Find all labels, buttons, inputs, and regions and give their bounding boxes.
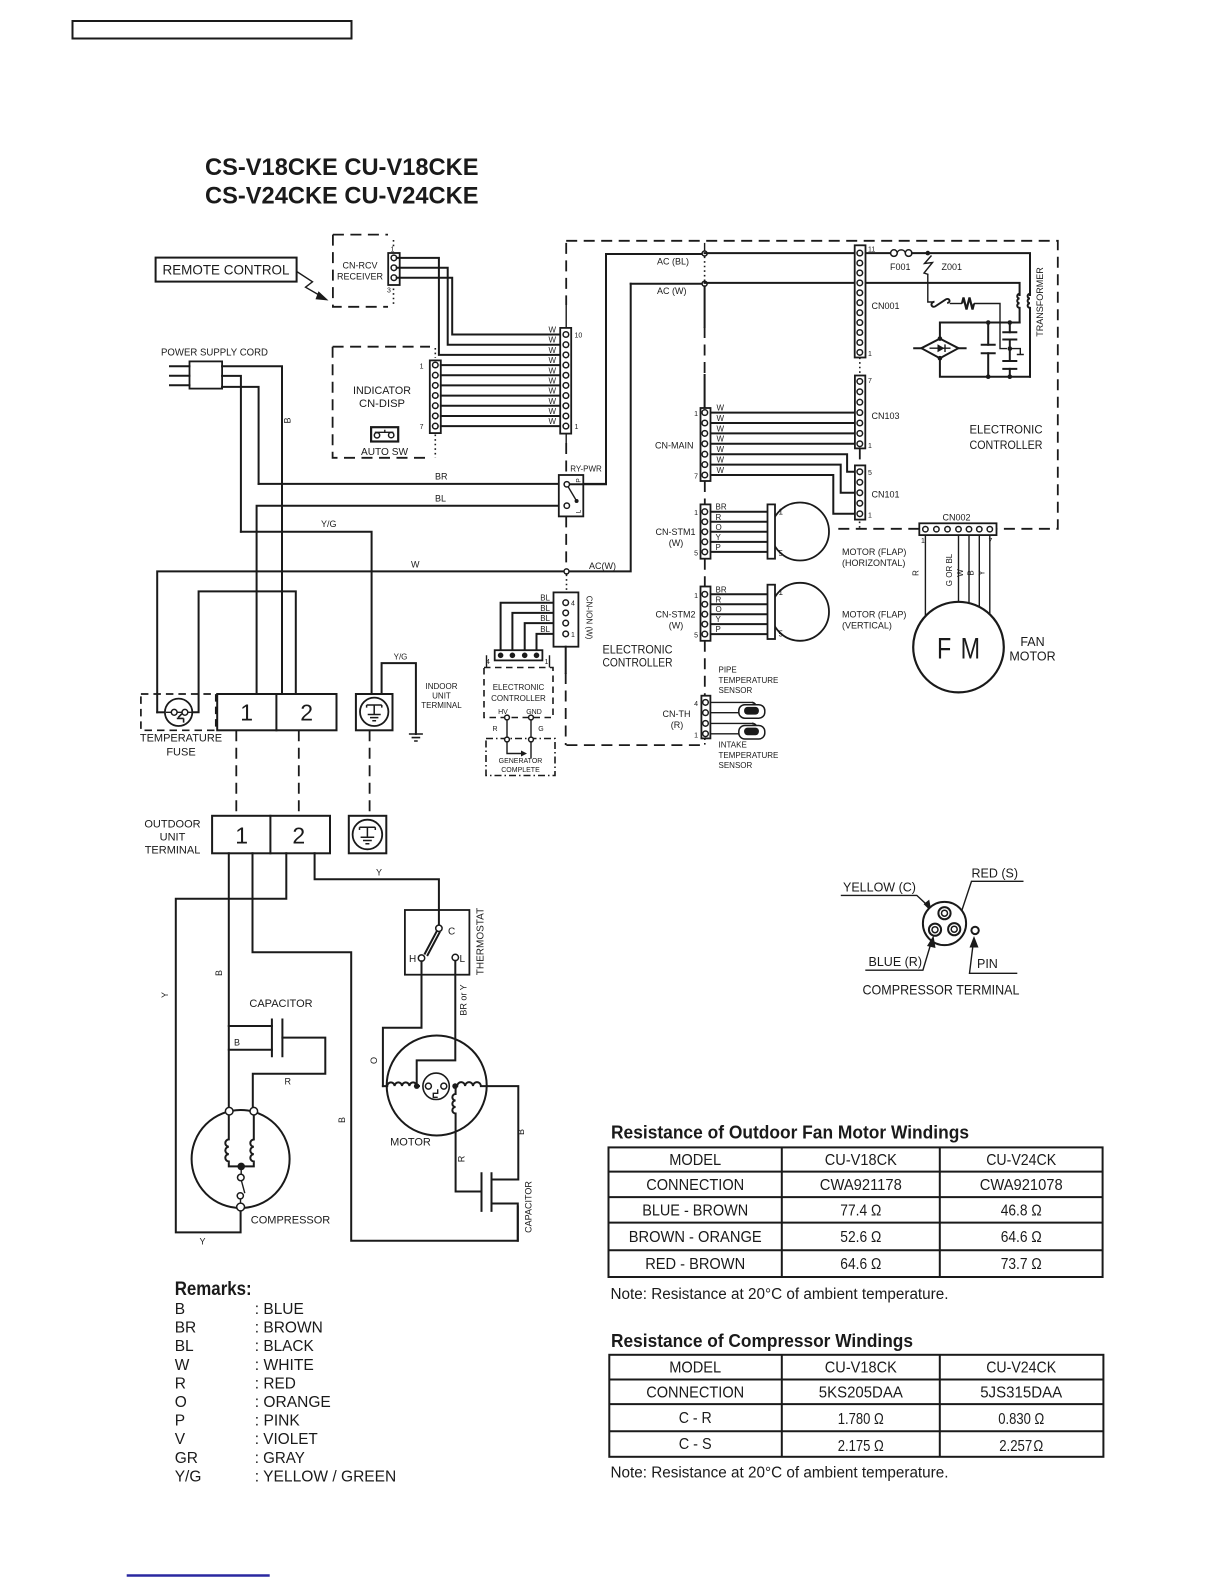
- varistor Z001: [924, 251, 962, 283]
- svg-text:2.257 Ω: 2.257 Ω: [999, 1438, 1043, 1455]
- svg-text:TERMINAL: TERMINAL: [421, 701, 462, 710]
- indoor dashed box bottom: [566, 744, 705, 746]
- connector CN-STM2: [656, 587, 711, 641]
- remote control signal arrow: [297, 272, 329, 301]
- connector CN002: [919, 513, 996, 546]
- svg-text:W: W: [717, 466, 725, 475]
- svg-text:INTAKE: INTAKE: [719, 741, 747, 750]
- svg-text:W: W: [717, 424, 725, 433]
- svg-text:W: W: [717, 414, 725, 423]
- svg-text:2: 2: [292, 823, 305, 849]
- motor capacitor: [456, 1114, 534, 1241]
- svg-text:11: 11: [868, 247, 875, 254]
- svg-text:BLUE (R): BLUE (R): [869, 955, 922, 969]
- svg-text:CN-ION (W): CN-ION (W): [585, 596, 594, 640]
- wire AC(W) from riser to node: [631, 283, 705, 285]
- capacitor (ceramic): [982, 323, 995, 377]
- svg-text:Note: Resistance at 20°C of am: Note: Resistance at 20°C of ambient temp…: [611, 1286, 949, 1303]
- wire terminal1 to motor capacitor (B): [253, 853, 518, 1240]
- outdoor ground terminal: [349, 816, 387, 854]
- svg-text:G OR BL: G OR BL: [945, 553, 954, 586]
- svg-text:CWA921078: CWA921078: [980, 1177, 1063, 1194]
- transformer TRANSFORMER: [1017, 267, 1045, 377]
- svg-text:1: 1: [779, 508, 784, 517]
- svg-text:1: 1: [694, 510, 698, 517]
- node AC(W): [657, 281, 707, 296]
- svg-text:1: 1: [545, 659, 549, 666]
- indoor ground terminal: [356, 694, 393, 730]
- svg-text:MODEL: MODEL: [669, 1360, 721, 1377]
- svg-text:GENERATOR: GENERATOR: [499, 758, 543, 765]
- fan motor FM: [913, 602, 1055, 693]
- svg-text:BR: BR: [716, 503, 727, 512]
- svg-text:(W): (W): [669, 621, 684, 631]
- svg-text:W: W: [548, 356, 556, 365]
- svg-text:5KS205DAA: 5KS205DAA: [819, 1385, 904, 1402]
- svg-text:R: R: [716, 595, 722, 604]
- svg-text:PIPE: PIPE: [719, 666, 737, 675]
- dotted CN001 to CN103: [859, 358, 861, 376]
- DC bus wires: [940, 320, 1030, 379]
- svg-text:TRANSFORMER: TRANSFORMER: [1035, 267, 1045, 337]
- svg-text:TEMPERATURE: TEMPERATURE: [719, 751, 779, 760]
- svg-text:O: O: [175, 1394, 187, 1411]
- W labels CN-MAIN wires: [717, 404, 725, 475]
- svg-text:7: 7: [868, 378, 872, 385]
- svg-text:0.830 Ω: 0.830 Ω: [998, 1411, 1044, 1428]
- svg-text:L: L: [576, 509, 583, 513]
- svg-text:CN-STM2: CN-STM2: [656, 610, 696, 620]
- svg-text:Y: Y: [716, 615, 722, 624]
- svg-text:P: P: [716, 543, 721, 552]
- svg-text:BLUE - BROWN: BLUE - BROWN: [642, 1203, 748, 1220]
- Y/G wire to ground: [241, 532, 372, 694]
- svg-text:R: R: [285, 1077, 292, 1087]
- svg-text:BL: BL: [540, 614, 550, 623]
- svg-text:1: 1: [420, 364, 424, 371]
- W wire (mains): [157, 284, 631, 713]
- svg-text:POWER SUPPLY CORD: POWER SUPPLY CORD: [161, 348, 268, 359]
- dashed CN-STM2 to CN-TH: [704, 641, 706, 696]
- svg-text:B: B: [234, 1038, 240, 1048]
- svg-text:W: W: [548, 336, 556, 345]
- svg-text:COMPRESSOR TERMINAL: COMPRESSOR TERMINAL: [863, 982, 1020, 998]
- svg-text:B: B: [516, 1129, 526, 1135]
- electronic controller (ion) dashed box: [484, 668, 553, 738]
- svg-text:W: W: [717, 445, 725, 454]
- svg-text:CAPACITOR: CAPACITOR: [249, 998, 312, 1010]
- svg-text:64.6 Ω: 64.6 Ω: [840, 1256, 881, 1273]
- wire thermostat H to motor (O): [369, 961, 422, 1086]
- svg-text:1: 1: [868, 351, 872, 358]
- pipe temperature sensor: [710, 666, 778, 719]
- svg-text:CU-V24CK: CU-V24CK: [986, 1360, 1057, 1377]
- svg-text:1: 1: [235, 823, 248, 849]
- svg-text:1.780 Ω: 1.780 Ω: [838, 1411, 884, 1428]
- connector CN-STM1: [656, 504, 711, 558]
- svg-text:REMOTE CONTROL: REMOTE CONTROL: [163, 262, 290, 278]
- relay RY-PWR: [559, 465, 606, 517]
- thermostat: [405, 908, 487, 975]
- svg-text:YELLOW (C): YELLOW (C): [843, 881, 916, 895]
- svg-text:CONTROLLER: CONTROLLER: [970, 438, 1043, 452]
- connector CN001 (11 pin): [855, 245, 900, 358]
- fan motor wires: [925, 535, 989, 616]
- svg-text:5: 5: [779, 630, 784, 639]
- svg-text:Note: Resistance at 20°C of am: Note: Resistance at 20°C of ambient temp…: [611, 1465, 949, 1482]
- indoor dashed box left border: [565, 243, 567, 567]
- svg-text:BL: BL: [540, 604, 550, 613]
- svg-text:Y: Y: [978, 570, 987, 576]
- svg-text:1: 1: [779, 588, 784, 597]
- svg-text:4: 4: [694, 701, 698, 708]
- svg-text:ELECTRONIC: ELECTRONIC: [603, 643, 673, 657]
- svg-text:O: O: [716, 605, 722, 614]
- svg-text:CS-V24CKE CU-V24CKE: CS-V24CKE CU-V24CKE: [205, 183, 479, 210]
- svg-text:R: R: [492, 726, 497, 733]
- AUTO SW: [361, 427, 409, 458]
- intake temperature sensor: [710, 723, 778, 770]
- svg-text:L: L: [460, 954, 466, 965]
- connector CN-ION: [554, 592, 594, 646]
- svg-text:FAN: FAN: [1020, 635, 1044, 649]
- indoor unit terminal label: [421, 682, 462, 710]
- svg-text:FUSE: FUSE: [166, 747, 195, 759]
- INDICATOR CN-DISP dashed box: [333, 347, 436, 458]
- dashed CN-MAIN to CN-STM1: [704, 481, 706, 504]
- svg-text:THERMOSTAT: THERMOSTAT: [476, 908, 487, 975]
- svg-text:CONTROLLER: CONTROLLER: [491, 694, 546, 703]
- svg-text:(W): (W): [669, 538, 684, 548]
- svg-text:77.4 Ω: 77.4 Ω: [840, 1203, 881, 1220]
- svg-text:1: 1: [571, 632, 575, 639]
- svg-text:TERMINAL: TERMINAL: [145, 845, 201, 857]
- cord wire to BR: [222, 387, 259, 484]
- svg-text:Y: Y: [376, 868, 382, 878]
- connector CN101 (5 pin): [855, 465, 900, 519]
- POWER SUPPLY CORD: [161, 348, 268, 389]
- resistor: [962, 298, 974, 310]
- svg-text:INDICATOR: INDICATOR: [353, 385, 411, 397]
- BR wire to RY-PWR: [259, 483, 606, 485]
- wire terminal2 to thermostat (Y): [315, 853, 439, 925]
- svg-text:7: 7: [694, 474, 698, 481]
- outdoor terminal block: [212, 816, 330, 854]
- svg-text:7: 7: [420, 424, 424, 431]
- svg-text:5JS315DAA: 5JS315DAA: [980, 1385, 1063, 1402]
- dashed terminal risers: [235, 730, 237, 816]
- cord wire to Y/G: [222, 376, 241, 532]
- svg-text:O: O: [369, 1057, 379, 1064]
- svg-text:R: R: [912, 570, 921, 576]
- svg-text:(HORIZONTAL): (HORIZONTAL): [842, 558, 905, 568]
- remarks: [175, 1279, 397, 1485]
- svg-text:Resistance of Compressor Windi: Resistance of Compressor Windings: [611, 1331, 913, 1351]
- svg-text:CN-TH: CN-TH: [663, 709, 691, 719]
- svg-text:RECEIVER: RECEIVER: [337, 272, 384, 282]
- svg-text:: GRAY: : GRAY: [255, 1450, 305, 1467]
- svg-text:5: 5: [779, 549, 784, 558]
- svg-text:W: W: [717, 456, 725, 465]
- svg-text:W: W: [548, 417, 556, 426]
- svg-text:COMPRESSOR: COMPRESSOR: [251, 1215, 331, 1227]
- thermal protector and resistor chain: [928, 283, 1007, 349]
- svg-text:ELECTRONIC: ELECTRONIC: [493, 683, 545, 692]
- svg-text:W: W: [548, 366, 556, 375]
- wires CN-STM1 to flap motor 1: [711, 512, 768, 552]
- svg-text:B: B: [283, 417, 293, 423]
- svg-text:SENSOR: SENSOR: [719, 761, 753, 770]
- svg-text:CN002: CN002: [943, 513, 971, 523]
- outdoor controller dashed box: [566, 241, 1058, 529]
- svg-text:MODEL: MODEL: [669, 1152, 721, 1169]
- svg-text:MOTOR (FLAP): MOTOR (FLAP): [842, 547, 906, 557]
- svg-text:1: 1: [868, 513, 872, 520]
- svg-text:Y: Y: [200, 1237, 206, 1247]
- svg-text:Y/G: Y/G: [394, 653, 408, 662]
- svg-text:CAPACITOR: CAPACITOR: [524, 1181, 534, 1233]
- motor (flap horizontal): [768, 503, 907, 569]
- svg-text:C - S: C - S: [679, 1436, 712, 1453]
- svg-text:1: 1: [868, 443, 872, 450]
- temperature fuse dashed box: [140, 694, 222, 759]
- wire below CN-ION: [565, 647, 567, 673]
- electrolytic capacitors: [1003, 323, 1024, 377]
- svg-text:SENSOR: SENSOR: [719, 686, 753, 695]
- svg-text:BL: BL: [540, 594, 550, 603]
- wire terminal2 to compressor (Y loop): [160, 853, 286, 1246]
- svg-text:ELECTRONIC: ELECTRONIC: [970, 423, 1043, 437]
- svg-text:64.6 Ω: 64.6 Ω: [1001, 1229, 1042, 1246]
- AC(BL) riser: [606, 254, 705, 484]
- fuse F001: [890, 250, 1030, 295]
- svg-text:CONNECTION: CONNECTION: [646, 1385, 744, 1402]
- svg-text:46.8 Ω: 46.8 Ω: [1001, 1203, 1042, 1220]
- svg-text:RY-PWR: RY-PWR: [570, 465, 602, 474]
- svg-text:1: 1: [921, 538, 925, 545]
- svg-text:W: W: [548, 407, 556, 416]
- svg-text:W: W: [548, 387, 556, 396]
- svg-text:UNIT: UNIT: [160, 832, 186, 844]
- connector CN-RCV: [387, 247, 400, 295]
- wires CN-MAIN to CN103: [711, 413, 855, 514]
- wire terminal1 to compressor B: [214, 853, 229, 1107]
- svg-text:: WHITE: : WHITE: [255, 1357, 314, 1374]
- svg-text:BR or Y: BR or Y: [459, 984, 469, 1015]
- wires CN-ION to ion connector: [501, 603, 563, 651]
- wires CN-DISP to 10-pin: [441, 365, 566, 426]
- svg-text:W: W: [548, 346, 556, 355]
- svg-text:B: B: [337, 1117, 347, 1123]
- svg-text:2: 2: [300, 700, 313, 726]
- BL wire from RY-PWR to terminal 1: [257, 506, 567, 694]
- svg-text:3: 3: [387, 288, 391, 295]
- svg-text:CU-V18CK: CU-V18CK: [825, 1152, 898, 1169]
- svg-text:W: W: [411, 560, 420, 570]
- svg-text:P: P: [576, 478, 583, 482]
- Y/G earth wire: [382, 653, 423, 742]
- pin: [971, 927, 978, 934]
- svg-text:W: W: [548, 397, 556, 406]
- indoor unit 10-pin connector: [560, 328, 582, 434]
- svg-text:1: 1: [575, 424, 579, 431]
- svg-text:73.7 Ω: 73.7 Ω: [1001, 1256, 1042, 1273]
- svg-text:W: W: [717, 435, 725, 444]
- compressor: [192, 1107, 331, 1226]
- svg-text:Z001: Z001: [942, 262, 963, 272]
- compressor capacitor CAPACITOR: [229, 998, 325, 1107]
- table 2: [609, 1355, 1103, 1457]
- svg-text:(R): (R): [671, 720, 684, 730]
- svg-text:BR: BR: [175, 1320, 197, 1337]
- svg-text:GR: GR: [175, 1450, 198, 1467]
- svg-text:CWA921178: CWA921178: [820, 1177, 902, 1194]
- svg-text:AC(W): AC(W): [589, 561, 616, 571]
- svg-text:: BROWN: : BROWN: [255, 1320, 323, 1337]
- svg-text:TEMPERATURE: TEMPERATURE: [140, 733, 222, 745]
- W labels on ten wires: [548, 326, 556, 427]
- connector CN-MAIN (7 pin): [655, 408, 711, 481]
- svg-text:OUTDOOR: OUTDOOR: [144, 819, 200, 831]
- svg-text:CONTROLLER: CONTROLLER: [603, 656, 673, 670]
- svg-text:P: P: [716, 625, 721, 634]
- svg-text:Y: Y: [160, 992, 170, 998]
- svg-text:: RED: : RED: [255, 1375, 296, 1392]
- svg-text:1: 1: [694, 732, 698, 739]
- motor MOTOR: [383, 1036, 526, 1180]
- svg-text:W: W: [717, 404, 725, 413]
- svg-text:RED (S): RED (S): [972, 867, 1019, 881]
- svg-text:W: W: [548, 376, 556, 385]
- svg-text:BL: BL: [435, 494, 446, 504]
- svg-text:(VERTICAL): (VERTICAL): [842, 621, 892, 631]
- svg-text:BR: BR: [716, 585, 727, 594]
- svg-text:BR: BR: [435, 472, 448, 482]
- svg-text:BL: BL: [540, 625, 550, 634]
- svg-text:2.175 Ω: 2.175 Ω: [838, 1438, 884, 1455]
- dashed CN103 to CN101: [859, 448, 861, 465]
- wire W through CN001 to transformer: [705, 283, 1020, 295]
- svg-text:CU-V18CK: CU-V18CK: [825, 1360, 898, 1377]
- bridge rectifier: [914, 336, 965, 360]
- dashed CN-STM1 to CN-STM2: [704, 559, 706, 587]
- generator complete box: [486, 737, 555, 775]
- svg-text:B: B: [967, 570, 976, 575]
- node AC(BL): [657, 243, 707, 281]
- svg-text:AC (BL): AC (BL): [657, 257, 689, 267]
- compressor terminal detail: [841, 867, 1024, 998]
- wires CN-STM2 to flap motor 2: [711, 594, 768, 634]
- wire thermostat L to motor (BR or Y): [417, 961, 469, 1086]
- svg-text:5: 5: [694, 550, 698, 557]
- svg-text:C: C: [448, 927, 455, 938]
- svg-text:1: 1: [240, 700, 253, 726]
- svg-text:B: B: [175, 1301, 185, 1318]
- svg-text:PIN: PIN: [977, 957, 998, 971]
- svg-text:5: 5: [868, 470, 872, 477]
- node AC(W) on mains W wire: [564, 561, 616, 590]
- header box: [73, 21, 352, 39]
- svg-text:O: O: [716, 523, 722, 532]
- svg-text:CN101: CN101: [872, 490, 900, 500]
- svg-text:CN-RCV: CN-RCV: [343, 261, 378, 271]
- svg-text:TEMPERATURE: TEMPERATURE: [719, 676, 779, 685]
- svg-text:1: 1: [694, 593, 698, 600]
- svg-text:R: R: [457, 1155, 467, 1162]
- wire AC(W) node down to CN-MAIN: [704, 286, 706, 408]
- svg-text:1: 1: [694, 411, 698, 418]
- wires CN-RCV to indoor 10-pin connector: [397, 258, 566, 355]
- svg-text:MOTOR: MOTOR: [390, 1137, 431, 1149]
- REMOTE CONTROL box: [156, 258, 297, 282]
- ion generator plug (4 dots): [486, 650, 550, 667]
- svg-text:CN-DISP: CN-DISP: [359, 398, 405, 410]
- connector CN-TH: [663, 696, 711, 740]
- svg-text:Resistance of Outdoor Fan Moto: Resistance of Outdoor Fan Motor Windings: [611, 1123, 969, 1143]
- svg-text:4: 4: [571, 601, 575, 608]
- svg-text:W: W: [175, 1357, 190, 1374]
- svg-text:F M: F M: [937, 633, 980, 666]
- svg-text:Y: Y: [716, 533, 722, 542]
- svg-text:F001: F001: [890, 262, 911, 272]
- svg-text:RED - BROWN: RED - BROWN: [645, 1256, 745, 1273]
- motor (flap vertical): [768, 583, 907, 641]
- svg-text:CN-STM1: CN-STM1: [656, 527, 696, 537]
- svg-text:W: W: [956, 569, 965, 577]
- svg-text:W: W: [548, 326, 556, 335]
- connector CN-DISP (7 pin): [420, 360, 441, 433]
- svg-text:P: P: [175, 1413, 185, 1430]
- table 1: [609, 1147, 1103, 1277]
- svg-text:CN001: CN001: [872, 301, 900, 311]
- svg-text:G: G: [538, 726, 543, 733]
- svg-text:AC (W): AC (W): [657, 286, 687, 296]
- svg-text:: BLUE: : BLUE: [255, 1301, 304, 1318]
- svg-text:10: 10: [575, 333, 583, 340]
- svg-text:: BLACK: : BLACK: [255, 1338, 315, 1355]
- outdoor unit terminal label: [144, 819, 200, 857]
- svg-text:CN103: CN103: [872, 411, 900, 421]
- svg-text:Remarks:: Remarks:: [175, 1279, 252, 1300]
- svg-text:V: V: [175, 1431, 186, 1448]
- indoor unit terminal block: [217, 694, 336, 730]
- svg-text:H: H: [409, 954, 416, 965]
- svg-text:: ORANGE: : ORANGE: [255, 1394, 331, 1411]
- svg-text:UNIT: UNIT: [432, 692, 451, 701]
- svg-text:AUTO SW: AUTO SW: [361, 447, 409, 458]
- svg-text:MOTOR (FLAP): MOTOR (FLAP): [842, 610, 906, 620]
- svg-text:: PINK: : PINK: [255, 1413, 301, 1430]
- footer rule: [127, 1574, 270, 1576]
- svg-text:GND: GND: [526, 709, 542, 716]
- svg-text:INDOOR: INDOOR: [426, 682, 458, 691]
- temperature fuse: [157, 591, 296, 726]
- svg-text:Y/G: Y/G: [175, 1468, 202, 1485]
- compressor terminal circle: [923, 902, 966, 945]
- svg-text:CU-V24CK: CU-V24CK: [986, 1152, 1057, 1169]
- svg-text:5: 5: [694, 633, 698, 640]
- CN-RCV RECEIVER dashed box: [333, 235, 394, 307]
- svg-text:52.6 Ω: 52.6 Ω: [840, 1229, 881, 1246]
- svg-text:COMPLETE: COMPLETE: [501, 767, 540, 774]
- svg-text:R: R: [716, 513, 722, 522]
- wire BL to CN001 and fuse: [705, 252, 891, 254]
- svg-text:: VIOLET: : VIOLET: [255, 1431, 319, 1448]
- svg-text:C - R: C - R: [679, 1410, 712, 1427]
- svg-text:B: B: [214, 970, 224, 976]
- svg-text:: YELLOW / GREEN: : YELLOW / GREEN: [255, 1468, 396, 1485]
- svg-text:BROWN - ORANGE: BROWN - ORANGE: [629, 1229, 762, 1246]
